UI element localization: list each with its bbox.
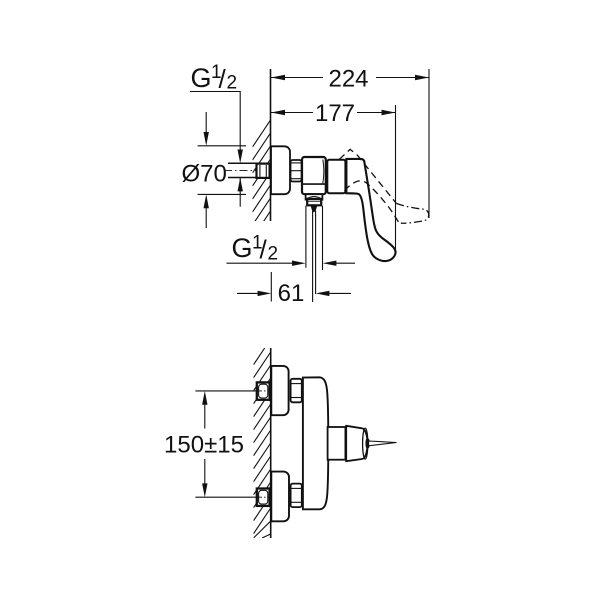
dimension 150+-15 extension lines (195, 390, 256, 392)
svg-text:2: 2 (268, 244, 279, 265)
bottom hex nut (front view) (291, 484, 302, 508)
svg-text:Ø70: Ø70 (182, 161, 227, 188)
bottom square nut centerline (257, 496, 271, 498)
mixer body cap section (side view) (302, 157, 326, 194)
bottom square nut chamfer wedges (270, 486, 272, 509)
lever alternate position (dashed) lower edge (345, 181, 401, 223)
escutcheon O70 (side view) (271, 146, 290, 194)
hex connection nut (side view) (291, 160, 302, 182)
dimension 61 extension line from wall (270, 272, 272, 302)
dimension 150+-15 line with arrows (204, 405, 206, 429)
bottom escutcheon (front view) (271, 472, 289, 522)
lever end-on ellipse (366, 439, 369, 448)
square union nut at wall (side view) (257, 164, 270, 178)
lever hub and lever handle (solid, side view) (346, 159, 395, 261)
G 1/2 bottom leader line with arrow (227, 262, 293, 264)
dimension 177 extension line (395, 105, 397, 253)
dimension 224 line (271, 77, 323, 79)
svg-text:150±15: 150±15 (164, 432, 244, 459)
shower outlet nut (307, 199, 321, 205)
cartridge housing (front view) (328, 427, 346, 460)
dimension O70 arrows (205, 112, 207, 132)
lever hub end cap ellipse (363, 428, 368, 459)
hose connector outer lines (305, 206, 307, 268)
svg-text:224: 224 (328, 66, 368, 93)
lever alternate position (dashed) upper edge (357, 155, 396, 204)
svg-text:61: 61 (278, 280, 305, 307)
wall face line (front view) (270, 348, 272, 538)
lever alternate position tip (dash-dot) (396, 203, 428, 223)
lever pointing at viewer (spike) (369, 441, 397, 446)
svg-text:177: 177 (315, 100, 355, 127)
dimension 224 extension line (428, 69, 430, 218)
lever hub (front view) (346, 426, 367, 461)
svg-text:/: / (219, 64, 227, 94)
svg-text:/: / (260, 235, 268, 265)
top square nut centerline (257, 390, 271, 392)
mixer body (front view) (303, 377, 328, 509)
bottom square nut (front view) (257, 489, 270, 506)
dimension 177 line (271, 112, 313, 114)
shower outlet flange (306, 194, 323, 199)
svg-text:G: G (232, 233, 253, 263)
wall hatching (side view) (253, 120, 271, 238)
G 1/2 top leader line (190, 92, 240, 151)
dimension O70 extension lines (198, 145, 246, 147)
dimension 61 arrows (237, 292, 258, 294)
top square nut (front view) (257, 382, 270, 399)
pipe centerline (224, 169, 271, 171)
mixer body middle section (side view) (327, 160, 345, 194)
hose cone (black) (311, 206, 318, 213)
svg-text:G: G (191, 63, 212, 93)
hose inner lines (312, 211, 314, 303)
lever alternate position (dashed) hub corner (339, 149, 357, 159)
wall face line (side view) (270, 69, 272, 221)
top escutcheon (front view) (271, 366, 288, 415)
top hex nut (front view) (291, 379, 302, 403)
supply pipe (wall connection) (228, 162, 257, 164)
top square nut chamfer wedges (270, 379, 272, 402)
wall hatching (front view) (254, 348, 271, 538)
svg-text:2: 2 (227, 73, 238, 94)
